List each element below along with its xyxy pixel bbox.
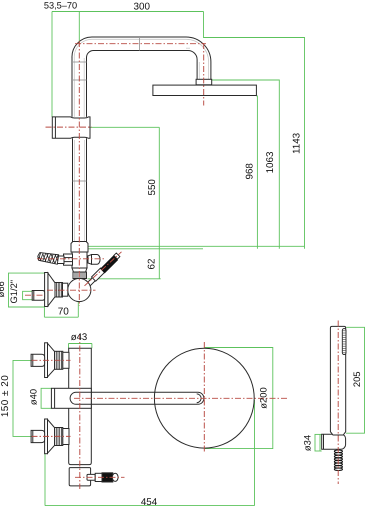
riser pipe below fitting — [73, 138, 87, 241]
svg-text:1143: 1143 — [292, 132, 303, 154]
pipe: top run + elbows — [72, 37, 211, 117]
hand shower wand — [330, 326, 345, 435]
dimension o40 — [41, 388, 51, 408]
body slab — [69, 348, 92, 486]
knurl lines upper mount — [56, 351, 61, 369]
hand shower holder — [322, 434, 346, 449]
svg-text:454: 454 — [141, 497, 158, 508]
shower head plate — [153, 85, 257, 95]
svg-text:ø200: ø200 — [257, 387, 268, 408]
ball — [68, 278, 91, 301]
dimension o200 — [204, 348, 272, 449]
dimension line top (53,5-70 / 300) — [52, 12, 305, 249]
big circle (shower head top view) — [154, 348, 254, 448]
svg-text:300: 300 — [134, 2, 151, 13]
head collar — [196, 79, 212, 85]
dimension 1063 extension — [212, 80, 280, 249]
dimension chain 550/62 — [88, 127, 161, 279]
G1/2 wall stub — [32, 291, 44, 301]
svg-text:ø43: ø43 — [71, 332, 88, 343]
red centerlines plan — [32, 321, 339, 490]
knurl lines on adjuster — [75, 272, 85, 279]
diverter knob (plan) — [87, 473, 118, 482]
svg-text:ø34: ø34 — [302, 435, 313, 451]
dimension o43 — [69, 344, 92, 349]
svg-text:70: 70 — [58, 307, 70, 318]
right diverter stub — [88, 255, 100, 265]
wall flange cone — [45, 273, 68, 307]
knurl lines lower mount — [56, 428, 61, 446]
dimension 454 — [45, 400, 255, 506]
arm boss — [51, 388, 91, 408]
hose coil under holder — [334, 450, 342, 470]
svg-text:1063: 1063 — [265, 151, 276, 173]
pipe inner shading — [74, 39, 208, 241]
dimension o34 — [315, 434, 322, 451]
dimension G1/2 bracket — [23, 291, 33, 299]
svg-text:ø66: ø66 — [0, 281, 6, 297]
diverter handle (diagonal) — [87, 253, 120, 287]
dimension o66 bracket — [9, 273, 45, 307]
tee assembly — [71, 242, 88, 279]
svg-text:53,5–70: 53,5–70 — [44, 0, 77, 10]
baseline for 968/1063/1143 — [89, 245, 305, 247]
flexible hose stub (crosshatched) — [37, 252, 59, 264]
dimension 150 +- 20 — [13, 360, 31, 436]
dimension 205 — [346, 327, 365, 433]
dimension 70 — [44, 302, 78, 317]
wall supply fitting — [52, 117, 90, 138]
spray strip on wand — [342, 329, 346, 355]
svg-text:205: 205 — [351, 371, 362, 387]
red centerlines front — [25, 41, 206, 306]
svg-text:968: 968 — [244, 163, 255, 180]
dimension 968 extension — [256, 96, 257, 249]
svg-text:150 ± 20: 150 ± 20 — [0, 375, 11, 417]
lower wall mount (plan) — [31, 419, 69, 454]
pipe joint lines — [72, 37, 140, 80]
hex nut left — [64, 254, 73, 265]
knurl ring on flange — [57, 283, 62, 298]
svg-text:G1/2": G1/2" — [8, 280, 19, 304]
hose nipple — [58, 256, 65, 264]
svg-text:62: 62 — [147, 259, 158, 270]
arm tube — [70, 392, 204, 404]
svg-text:550: 550 — [147, 179, 158, 196]
upper wall mount (plan) — [31, 343, 69, 378]
svg-text:ø40: ø40 — [27, 389, 38, 405]
